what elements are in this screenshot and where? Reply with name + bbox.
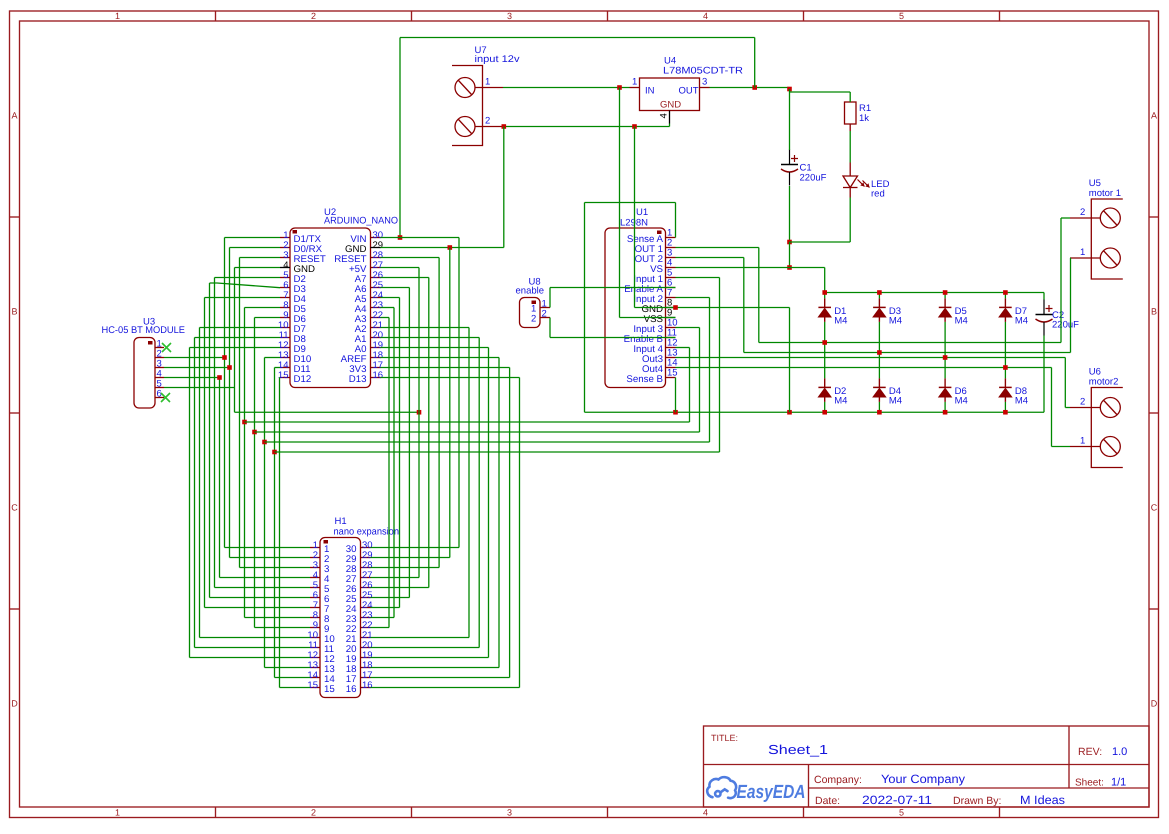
svg-text:5: 5 bbox=[899, 808, 904, 818]
svg-text:1: 1 bbox=[1080, 436, 1085, 447]
svg-text:2: 2 bbox=[311, 808, 316, 818]
svg-text:M4: M4 bbox=[889, 395, 902, 406]
svg-text:1: 1 bbox=[115, 808, 120, 818]
svg-text:enable: enable bbox=[516, 286, 545, 297]
svg-text:4: 4 bbox=[659, 113, 670, 118]
svg-text:3: 3 bbox=[507, 808, 512, 818]
svg-text:motor2: motor2 bbox=[1089, 377, 1119, 388]
svg-text:Sheet_1: Sheet_1 bbox=[768, 742, 828, 757]
svg-text:GND: GND bbox=[660, 100, 681, 111]
svg-text:TITLE:: TITLE: bbox=[711, 733, 738, 743]
svg-text:5: 5 bbox=[899, 11, 904, 21]
svg-text:C: C bbox=[1151, 503, 1158, 513]
svg-text:OUT: OUT bbox=[679, 86, 699, 97]
svg-text:A: A bbox=[11, 111, 17, 121]
svg-text:1: 1 bbox=[485, 77, 490, 88]
svg-text:C: C bbox=[11, 503, 18, 513]
svg-text:A: A bbox=[1151, 111, 1157, 121]
svg-text:D: D bbox=[11, 699, 18, 709]
svg-text:motor 1: motor 1 bbox=[1089, 188, 1121, 199]
svg-text:1/1: 1/1 bbox=[1111, 777, 1126, 789]
svg-text:Your Company: Your Company bbox=[881, 772, 965, 786]
svg-text:ARDUINO_NANO: ARDUINO_NANO bbox=[324, 215, 398, 226]
svg-text:red: red bbox=[871, 189, 885, 200]
svg-text:B: B bbox=[11, 307, 17, 317]
svg-text:M4: M4 bbox=[834, 315, 847, 326]
svg-text:220uF: 220uF bbox=[1052, 320, 1079, 331]
svg-text:Date:: Date: bbox=[815, 795, 840, 807]
svg-text:2022-07-11: 2022-07-11 bbox=[862, 793, 932, 807]
svg-text:D12: D12 bbox=[294, 374, 312, 385]
svg-text:15: 15 bbox=[324, 684, 335, 695]
svg-text:M4: M4 bbox=[1015, 315, 1028, 326]
svg-text:15: 15 bbox=[667, 368, 678, 379]
svg-text:2: 2 bbox=[531, 313, 536, 324]
svg-text:L78M05CDT-TR: L78M05CDT-TR bbox=[663, 66, 743, 77]
svg-text:M Ideas: M Ideas bbox=[1020, 793, 1065, 807]
svg-text:3: 3 bbox=[702, 77, 707, 88]
svg-text:1: 1 bbox=[632, 77, 637, 88]
svg-text:IN: IN bbox=[645, 86, 655, 97]
svg-text:input 12v: input 12v bbox=[475, 54, 520, 65]
svg-text:HC-05 BT MODULE: HC-05 BT MODULE bbox=[102, 325, 186, 336]
svg-text:2: 2 bbox=[311, 11, 316, 21]
svg-text:3: 3 bbox=[507, 11, 512, 21]
svg-text:16: 16 bbox=[373, 370, 384, 381]
svg-text:16: 16 bbox=[346, 684, 357, 695]
svg-text:15: 15 bbox=[307, 680, 318, 691]
svg-text:D: D bbox=[1151, 699, 1158, 709]
svg-text:Company:: Company: bbox=[814, 774, 862, 786]
svg-text:M4: M4 bbox=[955, 315, 968, 326]
svg-text:M4: M4 bbox=[955, 395, 968, 406]
svg-text:H1: H1 bbox=[335, 516, 347, 527]
svg-text:2: 2 bbox=[1080, 207, 1085, 218]
svg-text:2: 2 bbox=[1080, 397, 1085, 408]
svg-text:4: 4 bbox=[703, 808, 708, 818]
svg-text:Sense B: Sense B bbox=[626, 374, 663, 385]
svg-text:M4: M4 bbox=[834, 395, 847, 406]
svg-text:Drawn By:: Drawn By: bbox=[953, 795, 1001, 807]
svg-text:M4: M4 bbox=[1015, 395, 1028, 406]
svg-text:1: 1 bbox=[115, 11, 120, 21]
svg-text:M4: M4 bbox=[889, 315, 902, 326]
svg-text:1.0: 1.0 bbox=[1112, 746, 1127, 758]
svg-text:Sheet:: Sheet: bbox=[1075, 778, 1104, 789]
svg-text:1: 1 bbox=[1080, 247, 1085, 258]
svg-text:B: B bbox=[1151, 307, 1157, 317]
svg-text:EasyEDA: EasyEDA bbox=[737, 782, 806, 803]
svg-text:REV:: REV: bbox=[1078, 746, 1102, 758]
svg-text:D13: D13 bbox=[349, 374, 367, 385]
svg-text:U1: U1 bbox=[636, 207, 648, 218]
svg-text:1k: 1k bbox=[859, 113, 869, 124]
svg-text:2: 2 bbox=[542, 309, 547, 320]
svg-text:4: 4 bbox=[703, 11, 708, 21]
svg-text:220uF: 220uF bbox=[800, 173, 827, 184]
svg-text:2: 2 bbox=[485, 116, 490, 127]
svg-text:16: 16 bbox=[362, 680, 373, 691]
